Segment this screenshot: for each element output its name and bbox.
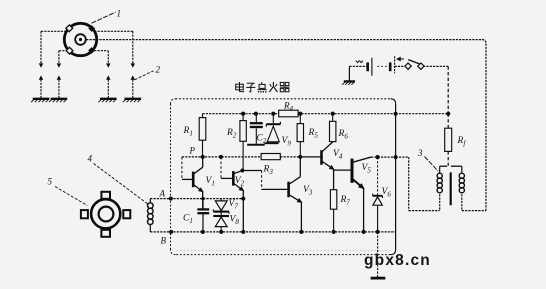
battery minus mark [356,61,363,63]
wire V2 collector to V3 base [242,171,261,190]
label 1 [117,9,122,19]
transistor V1 [182,157,203,209]
svg-text:2: 2 [156,65,161,75]
wire plug3 to distributor [94,50,108,52]
node rail R2 [241,112,245,116]
label 2 [156,65,161,75]
chassis ground [371,232,386,278]
node rail V9 [271,112,275,116]
diode V7 [213,199,229,232]
wire Rf to ignition coil [447,151,449,166]
high-voltage wire distributor to coil secondary [86,40,486,211]
ignition coil 3 top bar [440,166,462,173]
node B ground [376,230,380,234]
label V8 [230,215,240,227]
wire plug4 to distributor [94,30,133,32]
wire battery to switch [395,65,406,67]
distributor contact bottom-left [66,47,73,54]
node P rail [182,156,300,158]
wire primary to V5 collector [396,157,440,211]
title 电子点火器 [236,82,290,93]
ignition coil secondary winding [459,173,464,193]
svg-text:5: 5 [48,177,53,187]
transistor V3 [262,157,302,232]
label V7 [229,199,239,211]
node P R1-V1 [201,155,205,159]
label R4 [283,101,294,114]
node R3 right [298,155,302,159]
node B V8 [219,230,223,234]
wire ground to battery [349,65,367,67]
transistor V2 [221,157,243,232]
label R2 [226,128,237,140]
distributor contact top-right [88,25,95,32]
svg-text:1: 1 [117,9,122,19]
spark plug 3 [98,51,116,102]
watermark gbx8.cn [364,252,431,269]
wire junction to amplifier rail [396,113,449,115]
resistor R6 [330,114,336,142]
zener diode V9 [264,114,280,144]
battery GB [368,56,395,76]
label V6 [382,187,392,199]
svg-text:A: A [159,189,166,199]
node V2 collector [240,169,244,173]
label R7 [340,195,351,207]
leader line to label 5 [55,187,87,206]
transistor V4 [300,142,333,190]
capacitor C2 [247,114,265,145]
pickup coil 4 [148,199,154,232]
node B box edge [169,230,173,234]
label V1 [206,176,215,188]
label C1 [183,214,193,226]
node A V2 emitter [241,197,245,201]
label C2 [257,134,267,146]
transistor V5 [334,157,372,232]
node P V2-base [219,155,223,159]
label A [159,189,166,199]
wire switch to corner [423,65,448,67]
spark plug 4 [123,31,141,102]
svg-text:B: B [161,236,167,246]
label B [161,236,167,246]
node A box edge [169,197,173,201]
label 4 [88,154,93,164]
label R1 [183,126,193,138]
leader line to label 4 [94,164,149,205]
leader line to label 2 [135,71,154,80]
leader line to label 3 [425,157,439,172]
label 5 [48,177,53,187]
label 3 [417,148,423,158]
diode V8 [213,216,229,227]
battery ground [342,66,355,84]
wire primary bottom [439,194,441,210]
wire junction to Rf [447,114,449,129]
switch arrow [397,58,404,61]
label R5 [308,128,319,140]
resistor R2 [240,114,246,171]
resistor R7 [330,190,336,232]
node rail C2 [254,112,258,116]
wire V5 collector [371,156,396,158]
leader line to label 1 [92,12,116,23]
wire corner down to junction [447,66,449,113]
distributor rotor hub [75,34,86,45]
distributor contact bottom-right [88,47,95,54]
node B C1 [201,230,205,234]
zener diode V6 [373,157,383,232]
supply rail [203,113,396,115]
spark plug 2 [49,51,67,102]
svg-text:gbx8.cn: gbx8.cn [364,252,431,269]
resistor R1 [199,114,206,157]
resistor R5 [297,114,303,157]
node V5 collector V6 [376,155,380,159]
ignition switch S [405,60,424,70]
node collector crossing box edge [394,155,398,159]
node B V3 [299,230,303,234]
label V9 [282,136,292,148]
svg-text:P: P [189,146,196,156]
amplifier box 电子点火器 [171,99,396,255]
resistor Rf [445,128,452,151]
node A C1 [201,197,204,200]
wire secondary to HV return [462,210,486,212]
wire node A [150,198,243,200]
svg-text:4: 4 [88,154,93,164]
label V4 [333,149,343,161]
svg-text:3: 3 [417,148,423,158]
node B R7 [332,230,336,234]
node B V2 [241,230,245,234]
node rail R6 [331,112,335,116]
label V5 [362,163,372,175]
label R3 [263,165,274,177]
node rail crossing box edge [394,112,398,116]
node B V5 [362,230,366,234]
ignition coil core [450,172,452,205]
label Rf [457,136,467,148]
wire secondary bottom [461,194,463,210]
ignition coil primary winding [437,173,442,193]
spark plug 1 [31,31,49,102]
label R6 [338,129,349,141]
wire plug1 to distributor [41,30,67,32]
label V2 [235,176,245,188]
wire plug2 to distributor [59,50,67,52]
capacitor C1 [197,199,209,232]
ground rail B [150,231,395,233]
node rail R5 [298,112,302,116]
distributor contact top-left [66,25,73,32]
resistor R3 [261,154,280,160]
signal rotor 5 [81,192,130,237]
label V3 [303,185,313,197]
distributor cap 1 (outer body) [64,23,96,55]
resistor R4 [279,110,298,117]
label P [189,146,196,156]
node battery feed junction [446,112,450,116]
